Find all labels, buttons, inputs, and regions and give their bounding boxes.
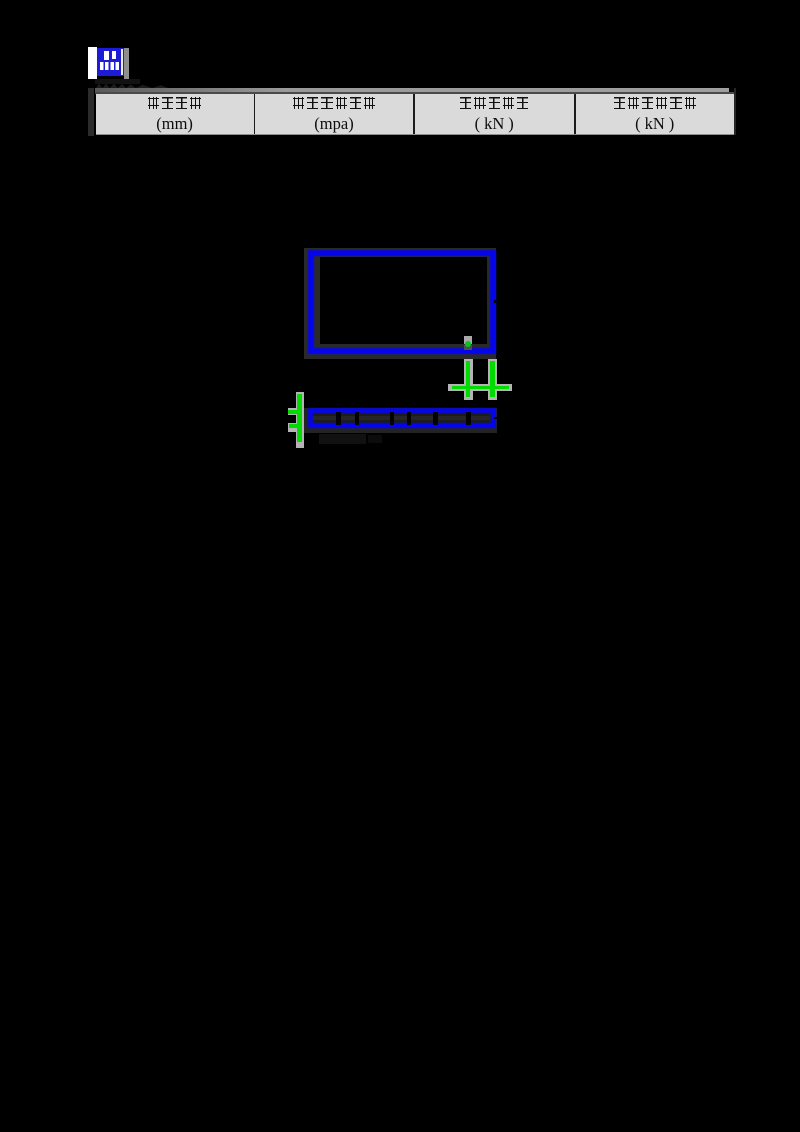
- left green tick 1: [288, 410, 297, 414]
- table top dark line: [95, 92, 734, 93]
- right border black tick: [494, 300, 497, 303]
- left green tick 2: [289, 424, 297, 428]
- logo white inner line: [121, 49, 123, 75]
- bar right notch: [494, 417, 497, 420]
- header cell 1: 公称直径 (mm): [96, 96, 254, 114]
- faint marks below logo: [95, 79, 140, 84]
- table left dark strip: [88, 88, 94, 136]
- table bottom gray line: [96, 134, 734, 136]
- header cell 3: 最小破断力 （kN）: [415, 96, 574, 114]
- cross horizontal green line: [452, 386, 510, 390]
- logo glyph upper 2: [112, 51, 116, 60]
- osnap green dot: [465, 341, 471, 347]
- left element green vertical: [297, 394, 302, 442]
- left tick 2 halo: [288, 423, 296, 432]
- bar tick 3: [390, 412, 394, 425]
- bar tick 2: [355, 412, 359, 425]
- bar tick 1: [336, 412, 340, 425]
- rectangle interior black: [320, 257, 488, 344]
- bar tick 4: [407, 412, 411, 425]
- left element gray strip: [296, 392, 305, 448]
- table cells: [96, 94, 734, 134]
- rebar cross marker 2 halo (vertical): [488, 359, 497, 400]
- logo glyph lower row: [100, 62, 119, 71]
- blue bar (side view): [308, 408, 497, 429]
- table top gray band: [95, 88, 729, 92]
- col divider 3: [574, 94, 576, 134]
- faint label under bar: [319, 434, 366, 444]
- bar backdrop: [304, 408, 497, 433]
- left tick 1 halo: [288, 408, 296, 415]
- col divider 2: [413, 94, 415, 134]
- logo glyph upper 1: [104, 51, 109, 60]
- logo white strip: [88, 47, 97, 79]
- logo gray strip right: [124, 48, 129, 79]
- blue rectangle (plan view): [308, 250, 496, 354]
- col divider 1: [254, 94, 256, 134]
- bar interior stripe: [313, 416, 490, 421]
- drawing backdrop upper: [304, 248, 496, 359]
- rebar cross marker 1 green stem: [466, 361, 471, 397]
- header cell 2: 公称抗拉强度 (mpa): [256, 96, 413, 114]
- rebar cross marker 2 green stem: [490, 361, 495, 397]
- rebar cross marker 1 halo (vertical): [464, 359, 473, 400]
- header cell 4: 抗拉力设计值 （kN）: [576, 96, 734, 114]
- table right dark line: [734, 88, 736, 135]
- cross horizontal halo: [448, 384, 512, 391]
- logo blue square CSCEC: [97, 48, 124, 76]
- bar tick 5: [433, 412, 437, 425]
- osnap gray marker: [464, 336, 472, 345]
- bar tick 6: [466, 412, 470, 425]
